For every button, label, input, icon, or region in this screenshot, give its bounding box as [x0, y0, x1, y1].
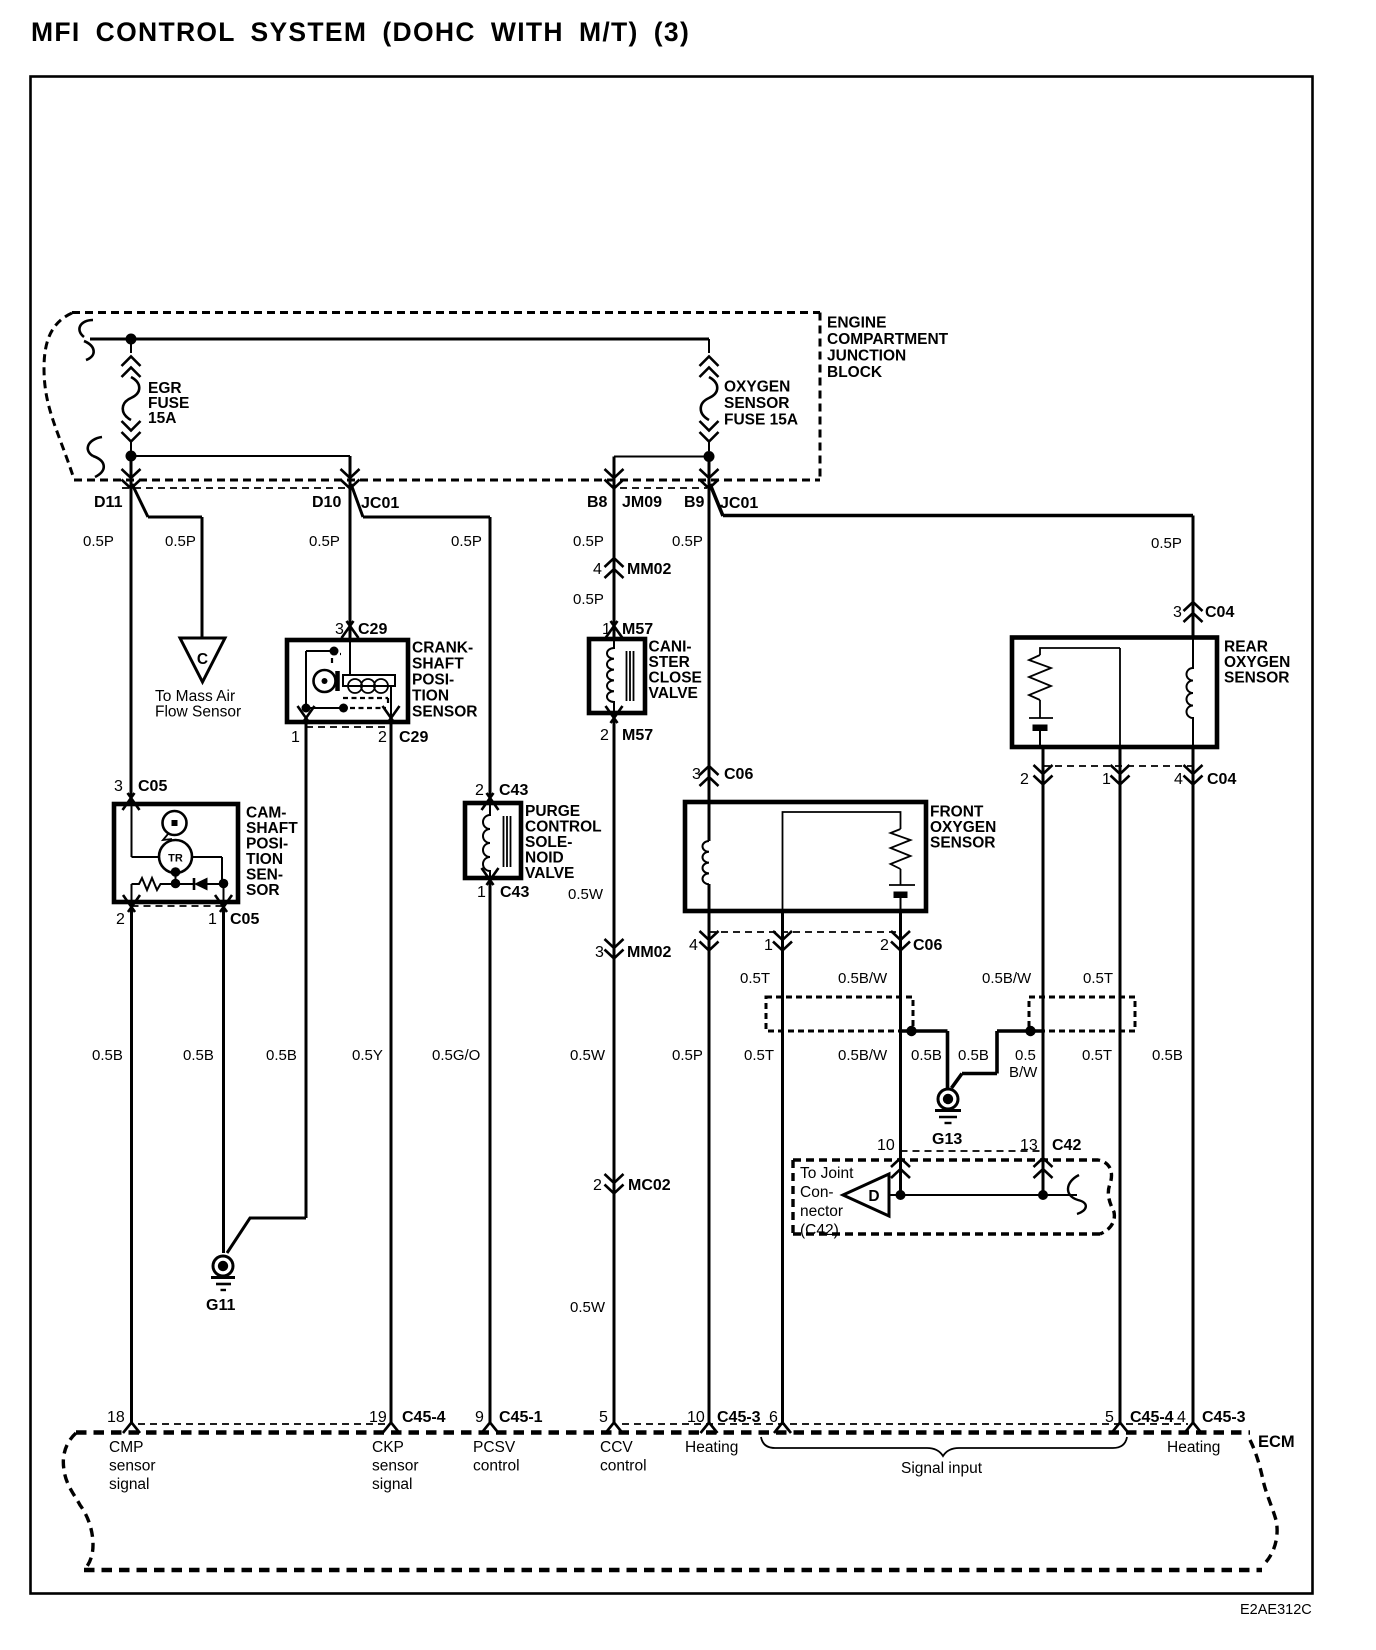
svg-text:1: 1 [764, 937, 773, 954]
svg-text:OXYGEN: OXYGEN [724, 379, 790, 396]
svg-text:C04: C04 [1205, 604, 1234, 621]
svg-text:0.5B: 0.5B [1152, 1047, 1183, 1064]
fuse: EGR FUSE 15A [122, 344, 141, 451]
ground G11 [206, 1256, 235, 1314]
svg-text:C45-1: C45-1 [499, 1409, 543, 1426]
svg-text:0.5G/O: 0.5G/O [432, 1047, 480, 1064]
svg-text:CMP: CMP [109, 1439, 143, 1456]
label FRONT OXYGEN SENSOR [930, 804, 996, 852]
front oxygen sensor box [685, 802, 926, 911]
CMP pin 2 lead [131, 884, 133, 902]
svg-text:MC02: MC02 [628, 1177, 671, 1194]
svg-text:FRONT: FRONT [930, 804, 984, 821]
CKP magnet circle [314, 670, 336, 692]
svg-text:2: 2 [600, 727, 609, 744]
svg-text:NOID: NOID [525, 850, 564, 867]
connector chevron 3 C29 [342, 621, 359, 638]
svg-text:SOLE-: SOLE- [525, 834, 572, 851]
svg-text:0.5B: 0.5B [183, 1047, 214, 1064]
wire: drop to triangle C [201, 517, 204, 638]
ECM pin chevron 4 C45-3 [1185, 1423, 1202, 1434]
svg-text:1: 1 [1102, 771, 1111, 788]
ECM pin chevron 10 [701, 1423, 718, 1434]
svg-text:C43: C43 [499, 782, 528, 799]
svg-text:3: 3 [114, 778, 123, 795]
connector chevron pin 2 C29 [383, 706, 400, 723]
ECM pin chevron 5 C45-4 [1112, 1423, 1129, 1434]
node dot C42 pin10 [896, 1190, 906, 1200]
node: dot below EGR fuse [126, 451, 137, 462]
svg-text:control: control [473, 1458, 520, 1475]
svg-text:TION: TION [412, 688, 449, 705]
wire: C29 pin 1 jog to ground [227, 1218, 306, 1253]
CMP node dot right [219, 879, 229, 889]
svg-text:D: D [868, 1188, 879, 1205]
svg-text:0.5W: 0.5W [568, 886, 604, 903]
svg-text:0.5B/W: 0.5B/W [982, 970, 1032, 987]
svg-text:COMPARTMENT: COMPARTMENT [827, 331, 949, 348]
svg-text:POSI-: POSI- [246, 836, 288, 853]
wire: rear O2 pin 4 to ECM pin 4 [1192, 747, 1195, 1423]
svg-text:To Mass Air: To Mass Air [155, 688, 235, 705]
node: bus dot above EGR fuse [126, 334, 137, 345]
front O2 battery cell [889, 869, 915, 911]
svg-text:M57: M57 [622, 727, 653, 744]
svg-text:0.5P: 0.5P [573, 533, 604, 550]
svg-text:ECM: ECM [1258, 1433, 1295, 1451]
svg-text:OXYGEN: OXYGEN [1224, 654, 1290, 671]
svg-text:18: 18 [107, 1409, 125, 1426]
rear O2 inner top lead [1040, 648, 1120, 747]
label REAR OXYGEN SENSOR [1224, 639, 1290, 687]
CMP small element circle [163, 811, 187, 835]
ground G13 [932, 1089, 962, 1148]
svg-text:2: 2 [116, 911, 125, 928]
CKP node dot [330, 647, 339, 656]
svg-text:0.5P: 0.5P [83, 533, 114, 550]
connector chevron 2 C43 [482, 793, 499, 810]
wire: ground tap from rear O2 pin2 wire [952, 1031, 1044, 1088]
svg-text:ENGINE: ENGINE [827, 315, 886, 332]
label CANISTER CLOSE VALVE [649, 639, 702, 703]
svg-text:10: 10 [687, 1409, 705, 1426]
svg-text:C04: C04 [1207, 771, 1236, 788]
svg-text:M57: M57 [622, 621, 653, 638]
svg-text:0.5B: 0.5B [266, 1047, 297, 1064]
svg-text:VALVE: VALVE [649, 685, 698, 702]
svg-text:TION: TION [246, 851, 283, 868]
svg-text:C45-3: C45-3 [1202, 1409, 1246, 1426]
svg-text:1: 1 [208, 911, 217, 928]
CKP inner wire pin3 drop [349, 640, 351, 675]
svg-text:MM02: MM02 [627, 944, 672, 961]
svg-text:CKP: CKP [372, 1439, 404, 1456]
svg-text:3: 3 [1173, 604, 1182, 621]
svg-text:0.5B/W: 0.5B/W [838, 970, 888, 987]
svg-text:REAR: REAR [1224, 639, 1268, 656]
svg-text:2: 2 [378, 729, 387, 746]
connector chevron 13 C42 [1034, 1158, 1053, 1178]
svg-text:To Joint: To Joint [800, 1165, 854, 1182]
wire: CMP pin 2 to ECM pin 18 [130, 902, 133, 1423]
wire: D11 drop to CMP sensor pin 3 [130, 461, 133, 803]
svg-text:1: 1 [602, 621, 611, 638]
connector chevron 3 C06 [700, 766, 719, 786]
svg-text:SENSOR: SENSOR [724, 395, 789, 412]
label 0.5 B/W (stacked) [1009, 1047, 1038, 1081]
svg-text:0.5W: 0.5W [570, 1299, 606, 1316]
purge control solenoid valve box [465, 803, 521, 878]
connector chevron pin 2 C06 [891, 931, 910, 951]
svg-text:4: 4 [593, 561, 602, 578]
svg-text:3: 3 [335, 621, 344, 638]
shield dashed box left [766, 997, 913, 1031]
wire: rear O2 pin 2 down to C42 [1042, 747, 1045, 1195]
wire: front O2 pin 1 to ECM pin 6 [781, 911, 784, 1423]
connector chevron pin 4 C04 [1184, 765, 1203, 785]
svg-text:SENSOR: SENSOR [930, 835, 995, 852]
connector chevron D10 [341, 469, 360, 489]
wire: lower bus bar (EGR to D10) [131, 455, 350, 457]
CKP shield dashes [332, 654, 388, 708]
wire: canister valve pin 2 to ECM pin 5 [613, 713, 616, 1423]
ECM boundary right curl [1250, 1440, 1277, 1562]
label CKP sensor signal [372, 1439, 419, 1493]
canister close valve coil [607, 640, 614, 713]
connector chevron B8 [605, 469, 624, 489]
svg-text:C43: C43 [500, 884, 529, 901]
svg-text:4: 4 [1174, 771, 1183, 788]
svg-text:E2AE312C: E2AE312C [1240, 1602, 1312, 1618]
svg-text:SHAFT: SHAFT [412, 656, 464, 673]
svg-text:G11: G11 [206, 1297, 235, 1314]
CKP coil right lead [390, 686, 392, 722]
connector dashed link line D11-D10 [122, 487, 350, 489]
to joint connector dashed box [793, 1160, 1114, 1234]
svg-text:0.5P: 0.5P [451, 533, 482, 550]
rear oxygen sensor box [1012, 638, 1217, 748]
wire: B9 through front O2 to ECM pin 10 [708, 884, 711, 1423]
connector chevron pin 1 C29 [298, 706, 315, 723]
svg-text:13: 13 [1020, 1137, 1038, 1154]
svg-text:15A: 15A [148, 410, 176, 427]
svg-text:nector: nector [800, 1203, 843, 1220]
svg-text:JM09: JM09 [622, 494, 662, 511]
wire: front O2 pin 2 down to C42 [899, 911, 902, 1195]
connector chevron D11 [122, 469, 141, 489]
node dot tap right [1025, 1026, 1035, 1036]
camshaft position sensor box [114, 804, 238, 902]
bus break curl lower-left [88, 437, 104, 477]
label CAMSHAFT POSITION SENSOR [246, 805, 298, 900]
svg-text:JC01: JC01 [720, 495, 758, 512]
connector dashed link C05 [132, 905, 224, 907]
svg-text:CONTROL: CONTROL [525, 819, 602, 836]
svg-text:control: control [600, 1458, 647, 1475]
svg-text:MFI CONTROL SYSTEM (DOHC WITH: MFI CONTROL SYSTEM (DOHC WITH M/T) (3) [31, 17, 690, 47]
label: EGR FUSE 15A [148, 380, 189, 427]
purge valve core lines [504, 816, 511, 867]
svg-text:SENSOR: SENSOR [412, 704, 477, 721]
connector chevron 1 M57 [606, 621, 623, 638]
wire: bus B8 to oxygen fuse [614, 456, 709, 458]
connector dashed link C04 bottom [1043, 765, 1193, 767]
ECM dashed link 18-19 [138, 1423, 385, 1425]
joint connector D triangle [843, 1174, 889, 1216]
svg-text:0.5B: 0.5B [92, 1047, 123, 1064]
svg-text:10: 10 [877, 1137, 895, 1154]
svg-text:Signal input: Signal input [901, 1460, 983, 1477]
svg-text:C: C [197, 651, 208, 668]
wire: D10 drop to CKP sensor pin 3 [349, 456, 352, 639]
ECM dashed link 5-4 [622, 1423, 1188, 1425]
CKP pickup coil body [343, 675, 395, 686]
wire: JC01 stub to purge valve line [363, 516, 490, 519]
CMP element tail [163, 834, 172, 840]
svg-text:SHAFT: SHAFT [246, 820, 298, 837]
label: OXYGEN SENSOR FUSE 15A [724, 379, 798, 429]
connector dashed link C06 bottom [709, 931, 901, 933]
svg-text:2: 2 [475, 782, 484, 799]
svg-text:0.5P: 0.5P [1151, 535, 1182, 552]
CKP magnet dot [322, 678, 328, 684]
svg-text:sensor: sensor [109, 1458, 156, 1475]
node: dot below oxygen sensor fuse [704, 451, 715, 462]
label PCSV control [473, 1439, 520, 1475]
svg-text:C06: C06 [724, 766, 753, 783]
svg-text:0.5Y: 0.5Y [352, 1047, 383, 1064]
connector chevron 3 MM02 [605, 939, 624, 959]
svg-text:0.5P: 0.5P [672, 533, 703, 550]
svg-text:0.5B: 0.5B [958, 1047, 989, 1064]
fuse: OXYGEN SENSOR FUSE 15A [700, 339, 719, 451]
svg-text:SENSOR: SENSOR [1224, 670, 1289, 687]
connector dashed link C29 [306, 726, 391, 728]
svg-text:C29: C29 [358, 621, 387, 638]
wire: ground tap from front O2 pin2 wire [901, 1031, 948, 1089]
triangle connector C (to mass air flow sensor) [180, 638, 225, 682]
svg-text:0.5T: 0.5T [1082, 1047, 1112, 1064]
svg-text:0.5B/W: 0.5B/W [838, 1047, 888, 1064]
svg-text:VALVE: VALVE [525, 865, 574, 882]
wire: JC01 branch diagonal at D10 [351, 484, 363, 517]
svg-text:Flow Sensor: Flow Sensor [155, 704, 241, 721]
svg-text:3: 3 [692, 766, 701, 783]
svg-text:0.5W: 0.5W [570, 1047, 606, 1064]
svg-text:2: 2 [593, 1177, 602, 1194]
connector dashed link line B8-B9 [620, 487, 707, 489]
svg-text:4: 4 [689, 937, 698, 954]
svg-text:0.5P: 0.5P [573, 591, 604, 608]
svg-text:POSI-: POSI- [412, 672, 454, 689]
svg-text:MM02: MM02 [627, 561, 672, 578]
svg-text:D10: D10 [312, 494, 341, 511]
svg-text:C42: C42 [1052, 1137, 1081, 1154]
label CCV control [600, 1439, 647, 1475]
ECM pin chevron 18 [123, 1423, 140, 1434]
wire: JC01 branch diagonal at B9 [710, 484, 723, 516]
front O2 inner cell frame [783, 812, 901, 911]
svg-text:0.5: 0.5 [1015, 1047, 1036, 1064]
connector chevron 2 MC02 [605, 1174, 624, 1194]
connector dashed link C42 top [901, 1150, 1044, 1152]
svg-text:PCSV: PCSV [473, 1439, 516, 1456]
svg-text:sensor: sensor [372, 1458, 419, 1475]
CMP small element square [172, 820, 178, 826]
ECM pin chevron 19 [383, 1423, 400, 1434]
ECM pin chevron 6 [774, 1423, 791, 1434]
svg-text:BLOCK: BLOCK [827, 364, 883, 381]
svg-text:5: 5 [599, 1409, 608, 1426]
svg-text:CCV: CCV [600, 1439, 633, 1456]
connector chevron 4 MM02 [605, 558, 624, 578]
purge valve coil [483, 803, 490, 878]
engine compartment junction block dashed box [44, 313, 820, 481]
connector chevron 3 C05 [123, 793, 140, 810]
svg-text:CANI-: CANI- [649, 639, 692, 656]
svg-text:OXYGEN: OXYGEN [930, 819, 996, 836]
svg-text:2: 2 [1020, 771, 1029, 788]
ECM pin chevron 5 [606, 1423, 623, 1434]
wire: drop to purge control solenoid valve pin 2 [489, 517, 492, 802]
svg-text:Con-: Con- [800, 1184, 834, 1201]
CKP magnet pole bar [335, 671, 340, 691]
wire: top bus bar [90, 338, 709, 341]
svg-text:9: 9 [475, 1409, 484, 1426]
connector chevron pin 2 C04 [1034, 765, 1053, 785]
svg-text:CAM-: CAM- [246, 805, 286, 822]
wire: C29 pin 2 to ECM pin 19 [390, 722, 393, 1423]
svg-text:4: 4 [1177, 1409, 1186, 1426]
wire: rear O2 pin 1 to ECM pin 5 [1119, 747, 1122, 1423]
front O2 resistor [891, 829, 911, 869]
CKP coil loops [348, 679, 388, 693]
svg-text:CRANK-: CRANK- [412, 640, 473, 657]
wire: joint connector bus [889, 1194, 1077, 1196]
svg-text:C45-3: C45-3 [717, 1409, 761, 1426]
CKP inner wire to pin 1 [306, 651, 345, 708]
svg-text:C45-4: C45-4 [1130, 1409, 1174, 1426]
junction block label [827, 315, 949, 382]
shield dashed box right [1029, 997, 1135, 1031]
svg-text:3: 3 [595, 944, 604, 961]
wire: B9 drop through front oxygen sensor [708, 461, 711, 841]
svg-text:0.5P: 0.5P [309, 533, 340, 550]
svg-text:JUNCTION: JUNCTION [827, 348, 906, 365]
svg-text:C06: C06 [913, 937, 942, 954]
connector chevron pin 1 C04 [1111, 765, 1130, 785]
svg-text:0.5T: 0.5T [744, 1047, 774, 1064]
svg-text:signal: signal [372, 1476, 413, 1493]
ECM boundary dashed bottom [84, 1568, 1262, 1573]
CMP TR bottom lead and dots [175, 873, 177, 884]
wire: branch stub to mass air flow line [148, 516, 202, 519]
svg-text:0.5P: 0.5P [672, 1047, 703, 1064]
svg-text:1: 1 [477, 884, 486, 901]
svg-text:JC01: JC01 [361, 495, 399, 512]
ECM pin chevron 9 [482, 1423, 499, 1434]
wire: purge valve pin 1 to ECM pin 9 [489, 878, 492, 1423]
wire: D11 branch diagonal [132, 484, 148, 517]
CMP inner left lead [132, 804, 160, 857]
label CRANKSHAFT POSITION SENSOR [412, 640, 477, 721]
connector chevron pin 1 C06 [773, 931, 792, 951]
CKP node dot pin1 [302, 704, 311, 713]
rear O2 heater coil [1187, 621, 1194, 747]
svg-text:G13: G13 [932, 1131, 962, 1148]
connector chevron 1 C43 [482, 868, 499, 885]
connector chevron pin 1 C05 [215, 895, 232, 912]
label To Mass Air Flow Sensor [155, 688, 241, 721]
canister close valve core lines [627, 651, 634, 701]
svg-text:B9: B9 [684, 494, 705, 511]
signal input brace [761, 1437, 1127, 1456]
svg-text:TR: TR [168, 853, 183, 865]
svg-text:SOR: SOR [246, 882, 280, 899]
svg-text:2: 2 [880, 937, 889, 954]
rear O2 resistor [1029, 655, 1051, 700]
CMP transistor circle TR [159, 840, 192, 873]
svg-text:0.5B: 0.5B [911, 1047, 942, 1064]
CMP resistor [132, 878, 176, 890]
CMP pin 1 lead [223, 884, 225, 903]
connector chevron 2 M57 [606, 706, 623, 723]
svg-text:signal: signal [109, 1476, 150, 1493]
svg-text:5: 5 [1105, 1409, 1114, 1426]
svg-text:B/W: B/W [1009, 1064, 1038, 1081]
svg-text:0.5T: 0.5T [1083, 970, 1113, 987]
label CMP sensor signal [109, 1439, 156, 1493]
ECM boundary left curl [63, 1433, 93, 1570]
svg-text:PURGE: PURGE [525, 803, 580, 820]
svg-text:C29: C29 [399, 729, 428, 746]
wire break squiggle [1068, 1175, 1086, 1214]
node dot tap left [906, 1026, 916, 1036]
svg-text:Heating: Heating [685, 1439, 738, 1456]
svg-text:CLOSE: CLOSE [649, 670, 702, 687]
wire: long feed to rear oxygen sensor [723, 514, 1193, 518]
svg-text:(C42): (C42) [800, 1222, 839, 1239]
svg-text:0.5P: 0.5P [165, 533, 196, 550]
svg-text:0.5T: 0.5T [740, 970, 770, 987]
connector chevron pin 2 C05 [123, 895, 140, 912]
wire: drop to rear oxygen sensor pin 3 [1192, 516, 1195, 638]
label To Joint Connector (C42) [800, 1165, 854, 1239]
node dot C42 pin13 [1038, 1190, 1048, 1200]
CMP diode [176, 878, 224, 891]
ECM boundary dashed top [76, 1430, 1250, 1435]
wire: B8 drop to canister close valve pin 1 [613, 457, 616, 640]
bus break curl top-left [79, 320, 93, 360]
CKP node dot mid [339, 704, 348, 713]
connector chevron pin 4 C06 [700, 931, 719, 951]
crankshaft position sensor box [287, 640, 408, 722]
svg-text:1: 1 [291, 729, 300, 746]
svg-text:19: 19 [369, 1409, 387, 1426]
svg-text:C05: C05 [230, 911, 259, 928]
front O2 heater coil [703, 841, 710, 884]
connector chevron 3 C04 [1184, 602, 1203, 622]
canister close valve box [589, 639, 645, 713]
svg-text:Heating: Heating [1167, 1439, 1220, 1456]
label PURGE CONTROL SOLENOID VALVE [525, 803, 602, 882]
svg-text:FUSE 15A: FUSE 15A [724, 412, 798, 429]
svg-text:C45-4: C45-4 [402, 1409, 446, 1426]
svg-text:STER: STER [649, 654, 690, 671]
connector chevron B9 [700, 469, 719, 489]
rear O2 battery cell [1029, 700, 1053, 747]
svg-text:B8: B8 [587, 494, 608, 511]
